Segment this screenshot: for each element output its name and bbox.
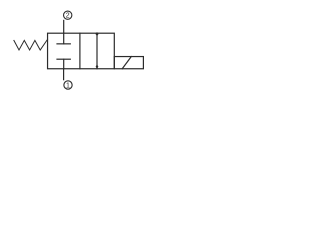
svg-text:1: 1: [66, 82, 70, 89]
port 2 line: [63, 20, 65, 33]
solenoid diagonal: [122, 57, 131, 69]
valve body outline: [48, 33, 115, 69]
port 1 line: [63, 69, 65, 80]
position divider: [79, 33, 81, 69]
solenoid coil box: [114, 57, 143, 69]
flow path (position 2): [96, 33, 98, 69]
arrowhead up: [95, 32, 98, 36]
port label 1 circle: [64, 81, 72, 89]
arrowhead down: [96, 64, 99, 69]
port label 2 circle: [64, 11, 72, 19]
blocked port T (bottom, position 1): [57, 59, 70, 69]
blocked port T (top, position 1): [57, 33, 70, 44]
svg-text:2: 2: [66, 13, 70, 20]
spring (left return spring): [14, 39, 48, 50]
